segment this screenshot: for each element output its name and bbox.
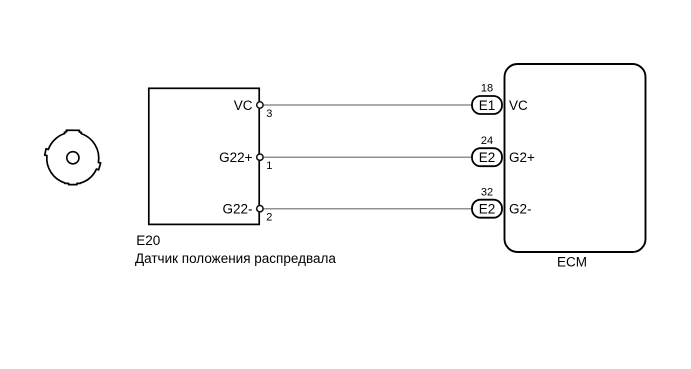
pin terminal 2 bbox=[257, 206, 263, 212]
svg-text:3: 3 bbox=[266, 108, 272, 120]
svg-text:G2-: G2- bbox=[509, 202, 532, 217]
svg-text:G22+: G22+ bbox=[219, 150, 253, 165]
svg-text:E1: E1 bbox=[479, 98, 496, 113]
svg-text:E20: E20 bbox=[136, 233, 160, 248]
svg-text:G22-: G22- bbox=[222, 202, 252, 217]
svg-text:E2: E2 bbox=[479, 150, 496, 165]
svg-text:2: 2 bbox=[266, 212, 272, 224]
wire VC bbox=[263, 104, 472, 106]
pin terminal 3 bbox=[257, 102, 263, 108]
sensor center hole bbox=[67, 152, 79, 164]
wire G22- bbox=[263, 208, 472, 210]
svg-text:E2: E2 bbox=[479, 202, 496, 217]
svg-text:Датчик положения распредвала: Датчик положения распредвала bbox=[135, 251, 336, 266]
connector pill E1 pin 18 bbox=[472, 96, 502, 114]
svg-text:1: 1 bbox=[266, 160, 272, 172]
wire G22+ bbox=[263, 156, 472, 158]
svg-text:32: 32 bbox=[481, 186, 493, 198]
sensor box E20 bbox=[149, 88, 259, 224]
pin terminal 1 bbox=[257, 154, 263, 160]
svg-text:G2+: G2+ bbox=[509, 150, 535, 165]
ECM box bbox=[505, 64, 646, 252]
svg-text:VC: VC bbox=[234, 98, 253, 113]
connector pill E2 pin 32 bbox=[472, 200, 502, 218]
svg-text:24: 24 bbox=[481, 135, 493, 147]
svg-text:ECM: ECM bbox=[557, 254, 587, 269]
connector pill E2 pin 24 bbox=[472, 148, 502, 166]
sensor E20 rotor symbol bbox=[45, 130, 101, 184]
svg-text:VC: VC bbox=[509, 98, 528, 113]
svg-text:18: 18 bbox=[481, 83, 493, 95]
